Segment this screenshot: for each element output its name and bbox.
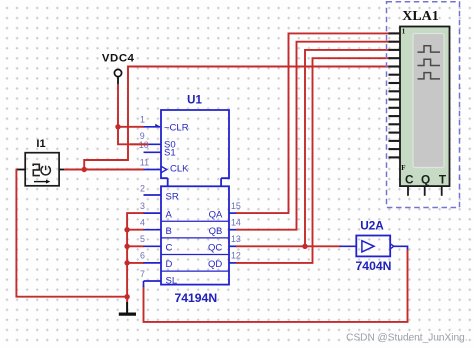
svg-text:F: F — [401, 164, 405, 172]
pin 10 S1 stub — [144, 151, 162, 153]
pin 4 B stub — [144, 229, 162, 231]
svg-text:T: T — [439, 173, 447, 187]
current source I1 (clock source) — [25, 153, 59, 186]
U1 internal dividers — [161, 221, 229, 271]
svg-text:~CLR: ~CLR — [164, 123, 189, 134]
svg-text:12: 12 — [231, 251, 241, 261]
XLA1 Q pin — [424, 186, 426, 196]
XLA1 waveform 2 — [418, 59, 441, 65]
pin number labels U1 — [139, 115, 241, 279]
svg-text:SL: SL — [166, 275, 178, 286]
XLA1 waveform 1 — [418, 46, 441, 52]
wire QD to XLA1 channel 4 — [236, 58, 391, 263]
XLA1 channel pins 1-16 — [389, 33, 401, 157]
XLA1 C pin — [407, 186, 409, 196]
junction D — [124, 260, 129, 265]
XLA1 T pin — [441, 186, 443, 196]
svg-text:15: 15 — [231, 201, 241, 211]
XLA1 waveform 3 — [418, 73, 441, 79]
shift register U1 74194N body — [161, 110, 229, 285]
svg-text:S1: S1 — [164, 147, 176, 158]
logic analyzer XLA1 body — [400, 27, 450, 187]
svg-text:D: D — [166, 259, 173, 270]
junction ground node — [124, 294, 129, 299]
svg-text:QB: QB — [209, 226, 223, 237]
svg-text:I1: I1 — [36, 138, 45, 150]
svg-text:7: 7 — [140, 269, 145, 279]
svg-text:1: 1 — [402, 28, 406, 36]
wire clock node to XLA1 channel 5 — [84, 67, 390, 170]
pin 11 CLK stub — [144, 166, 167, 172]
U1 pin labels inside — [164, 123, 223, 287]
XLA1 screen — [413, 34, 444, 168]
svg-text:U2A: U2A — [360, 218, 384, 232]
pin 7 SL stub — [144, 280, 162, 282]
junction QC — [302, 244, 307, 249]
pin 5 C stub — [144, 245, 162, 247]
svg-text:74194N: 74194N — [174, 291, 217, 305]
svg-text:5: 5 — [140, 234, 145, 244]
svg-text:VDC4: VDC4 — [102, 53, 135, 65]
svg-text:QA: QA — [209, 209, 223, 220]
wire U2A output to SL pin 7 — [144, 250, 408, 322]
pin 1 ~CLR stub — [144, 124, 161, 127]
svg-text:SR: SR — [166, 191, 179, 202]
svg-text:B: B — [166, 226, 172, 237]
power terminal VDC4 — [114, 69, 121, 76]
junction C — [124, 244, 129, 249]
svg-text:2: 2 — [140, 184, 145, 194]
pin 6 D stub — [144, 262, 162, 264]
pin 15 QA stub — [229, 212, 237, 214]
U2A output bubble — [390, 244, 394, 249]
pin 13 QC stub — [229, 245, 237, 247]
wire I1 to CLK pin 11 — [64, 169, 144, 171]
svg-text:QD: QD — [208, 259, 222, 270]
svg-text:3: 3 — [140, 201, 145, 211]
instrument XLA1 selection box — [387, 2, 460, 208]
I1 right stub — [59, 169, 65, 171]
wire U2A output corner (blue) — [394, 246, 408, 250]
svg-text:C: C — [405, 173, 414, 187]
XLA1 C Q T labels — [405, 173, 447, 187]
inverter U2A body — [356, 236, 390, 257]
svg-text:13: 13 — [231, 234, 241, 244]
svg-text:11: 11 — [140, 157, 149, 167]
wire SL corner (blue) — [143, 281, 145, 287]
junction B — [124, 227, 129, 232]
wire VDC4 to S0 crossing pin-10 label — [130, 143, 148, 145]
pin 14 QB stub — [229, 229, 237, 231]
junction VDC4/CLR — [115, 124, 120, 129]
wire junction to pin 1 ~CLR — [118, 126, 144, 128]
svg-text:A: A — [166, 209, 173, 220]
svg-text:7404N: 7404N — [356, 259, 392, 273]
pin 9 S0 stub — [144, 143, 162, 145]
pin 3 A stub — [144, 212, 162, 214]
I1 left stub — [16, 169, 25, 171]
pin 2 SR stub — [144, 194, 162, 196]
svg-text:6: 6 — [140, 251, 145, 261]
U2A input stub — [340, 245, 357, 247]
wire parallel inputs A B C D to ground — [127, 213, 144, 297]
wire QA to XLA1 channel 1 — [236, 33, 391, 213]
wire branch to D pin 6 — [127, 262, 144, 264]
wire QC branch to XLA1 channel 3 — [305, 50, 391, 246]
ground — [119, 297, 136, 314]
pin 12 QD stub — [229, 262, 237, 264]
svg-text:CSDN @Student_JunXing.: CSDN @Student_JunXing. — [346, 332, 467, 343]
svg-text:U1: U1 — [187, 95, 202, 107]
svg-text:CLK: CLK — [170, 164, 189, 175]
wire QC to U2A input — [236, 245, 341, 247]
wire I1 to ground — [16, 169, 127, 297]
wire branch to C pin 5 — [127, 245, 144, 247]
svg-text:QC: QC — [208, 243, 222, 254]
svg-text:XLA1: XLA1 — [402, 9, 439, 24]
svg-text:1: 1 — [140, 115, 145, 125]
svg-text:C: C — [166, 243, 173, 254]
wire VDC4 down to S0 (pin 9) — [118, 84, 148, 144]
junction clock node — [82, 167, 87, 172]
svg-text:4: 4 — [140, 218, 145, 228]
svg-text:Q: Q — [421, 173, 430, 187]
svg-text:14: 14 — [231, 218, 241, 228]
wire branch to B pin 4 — [127, 229, 144, 231]
wire QB to XLA1 channel 2 — [236, 42, 391, 230]
